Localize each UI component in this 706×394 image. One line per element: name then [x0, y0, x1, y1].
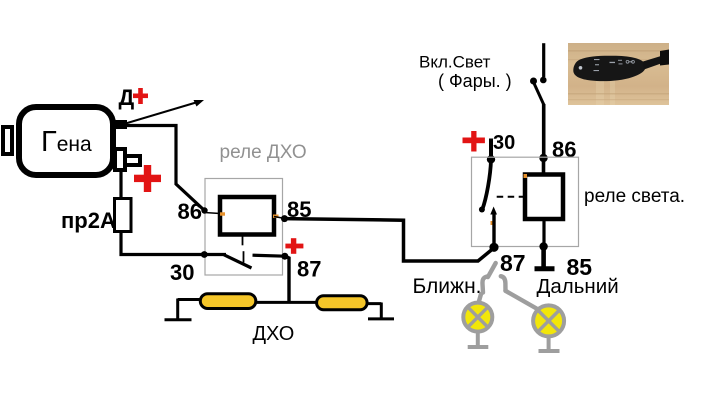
relay K2 switch blade — [482, 160, 491, 210]
generator D+ terminal — [114, 120, 127, 129]
wire: K2 pin 87 to high-beam lamp — [501, 276, 537, 308]
orange mark at K2 coil corner — [524, 174, 528, 178]
generator B+ terminal — [115, 149, 140, 170]
wire: D+ terminal to relay K1 pin 86 — [127, 126, 205, 211]
generator G1 mounting lug — [3, 127, 12, 154]
svg-text:87: 87 — [297, 257, 321, 282]
wire: K2 contact to pin 87 — [492, 213, 495, 247]
svg-text:Ближн.: Ближн. — [413, 275, 482, 298]
relay K1 housing — [205, 179, 283, 276]
fuse F1 (пр2А) — [115, 199, 132, 232]
relay K2 housing — [472, 157, 579, 246]
svg-text:реле света.: реле света. — [584, 186, 685, 207]
ground at HL1 — [468, 332, 489, 347]
plus polarity mark at B+ — [134, 165, 161, 192]
svg-text:реле ДХО: реле ДХО — [220, 142, 307, 163]
relay K2 fixed contact — [490, 207, 497, 215]
relay K1 fixed contact wire to pin 87 — [253, 255, 286, 256]
svg-text:Д: Д — [119, 85, 135, 110]
svg-text:( Фары. ): ( Фары. ) — [438, 71, 512, 91]
relay K2 coil — [525, 175, 563, 220]
relay K2 armature dashed link — [497, 196, 525, 198]
wire: K2 pin 87 to low-beam lamp — [479, 263, 496, 303]
wire: pin 86 to coil — [205, 213, 221, 214]
svg-text:30: 30 — [170, 260, 194, 285]
switch SW1 fixed contact — [540, 77, 547, 84]
junction: K2 pin 87 — [489, 243, 498, 252]
arrow from D+ to indicator — [124, 100, 204, 124]
wire: fuse to relay K1 pin 30 — [121, 232, 226, 255]
blade tip blob — [479, 207, 485, 213]
junction: K1 pin 87 — [281, 253, 288, 260]
wire: switch SW1 to K2 pin 86 — [542, 104, 546, 158]
DRL bus wire middle segment — [254, 301, 318, 304]
svg-text:ДХО: ДХО — [253, 323, 295, 345]
ground at EL1 — [165, 299, 192, 320]
junction: K2 pin 85 — [539, 242, 547, 250]
junction: K1 pin 85 — [281, 215, 288, 222]
svg-text:Вкл.Свет: Вкл.Свет — [419, 53, 491, 72]
svg-text:Дальний: Дальний — [537, 275, 619, 298]
DRL bus wire right segment — [365, 302, 381, 305]
switch SW1 blade — [534, 83, 544, 105]
plus polarity mark at K2 pin 30 — [463, 131, 485, 152]
svg-text:87: 87 — [500, 250, 526, 276]
orange mark at coil left terminal — [220, 212, 225, 215]
junction: K1 pin 86 — [201, 207, 207, 213]
wire: coil to pin 85 — [274, 217, 285, 219]
relay K1 coil — [220, 197, 274, 235]
wire: K1 pin 85 to K2 pin 87 — [285, 219, 494, 261]
generator G1 body — [19, 107, 113, 175]
low-beam lamp HL1 — [463, 303, 492, 332]
wire stub above K2 pin 30 — [489, 139, 493, 160]
wire: K1 pin 87 down to DRL bus — [285, 256, 289, 302]
headlight switch SW1 feed wire — [542, 43, 545, 77]
ground at HL2 — [539, 337, 560, 351]
high-beam lamp HL2 — [533, 305, 564, 336]
wire: K2 pin 86 to coil top — [542, 158, 546, 175]
orange mark on K2 contact wire — [491, 221, 494, 225]
wire: K2 coil bottom to pin 85 — [542, 219, 545, 247]
DRL lamp EL2 — [317, 296, 368, 310]
junction: K2 pin 30 — [487, 155, 495, 163]
photo of steering column stalk — [568, 43, 669, 105]
junction: K1 pin 30 — [201, 251, 208, 258]
DRL lamp EL1 — [200, 294, 256, 309]
svg-text:30: 30 — [493, 132, 515, 154]
ground at K2 pin 85 — [535, 247, 555, 269]
relay K1 armature dashed link — [243, 235, 244, 263]
plus polarity mark at K1 pin 87 — [285, 238, 303, 254]
svg-text:пр2А: пр2А — [61, 208, 116, 233]
switch SW1 pivot contact — [530, 78, 537, 85]
orange mark at coil right terminal — [273, 215, 279, 218]
relay K1 switch blade — [224, 255, 252, 268]
svg-text:86: 86 — [552, 137, 576, 162]
plus polarity mark at Д+ — [133, 88, 148, 104]
wire: B+ terminal to fuse — [119, 170, 122, 199]
ground at EL2 — [368, 303, 394, 319]
junction: K2 pin 86 — [539, 154, 547, 162]
DRL bus wire left segment — [178, 298, 201, 301]
svg-text:86: 86 — [178, 199, 202, 224]
